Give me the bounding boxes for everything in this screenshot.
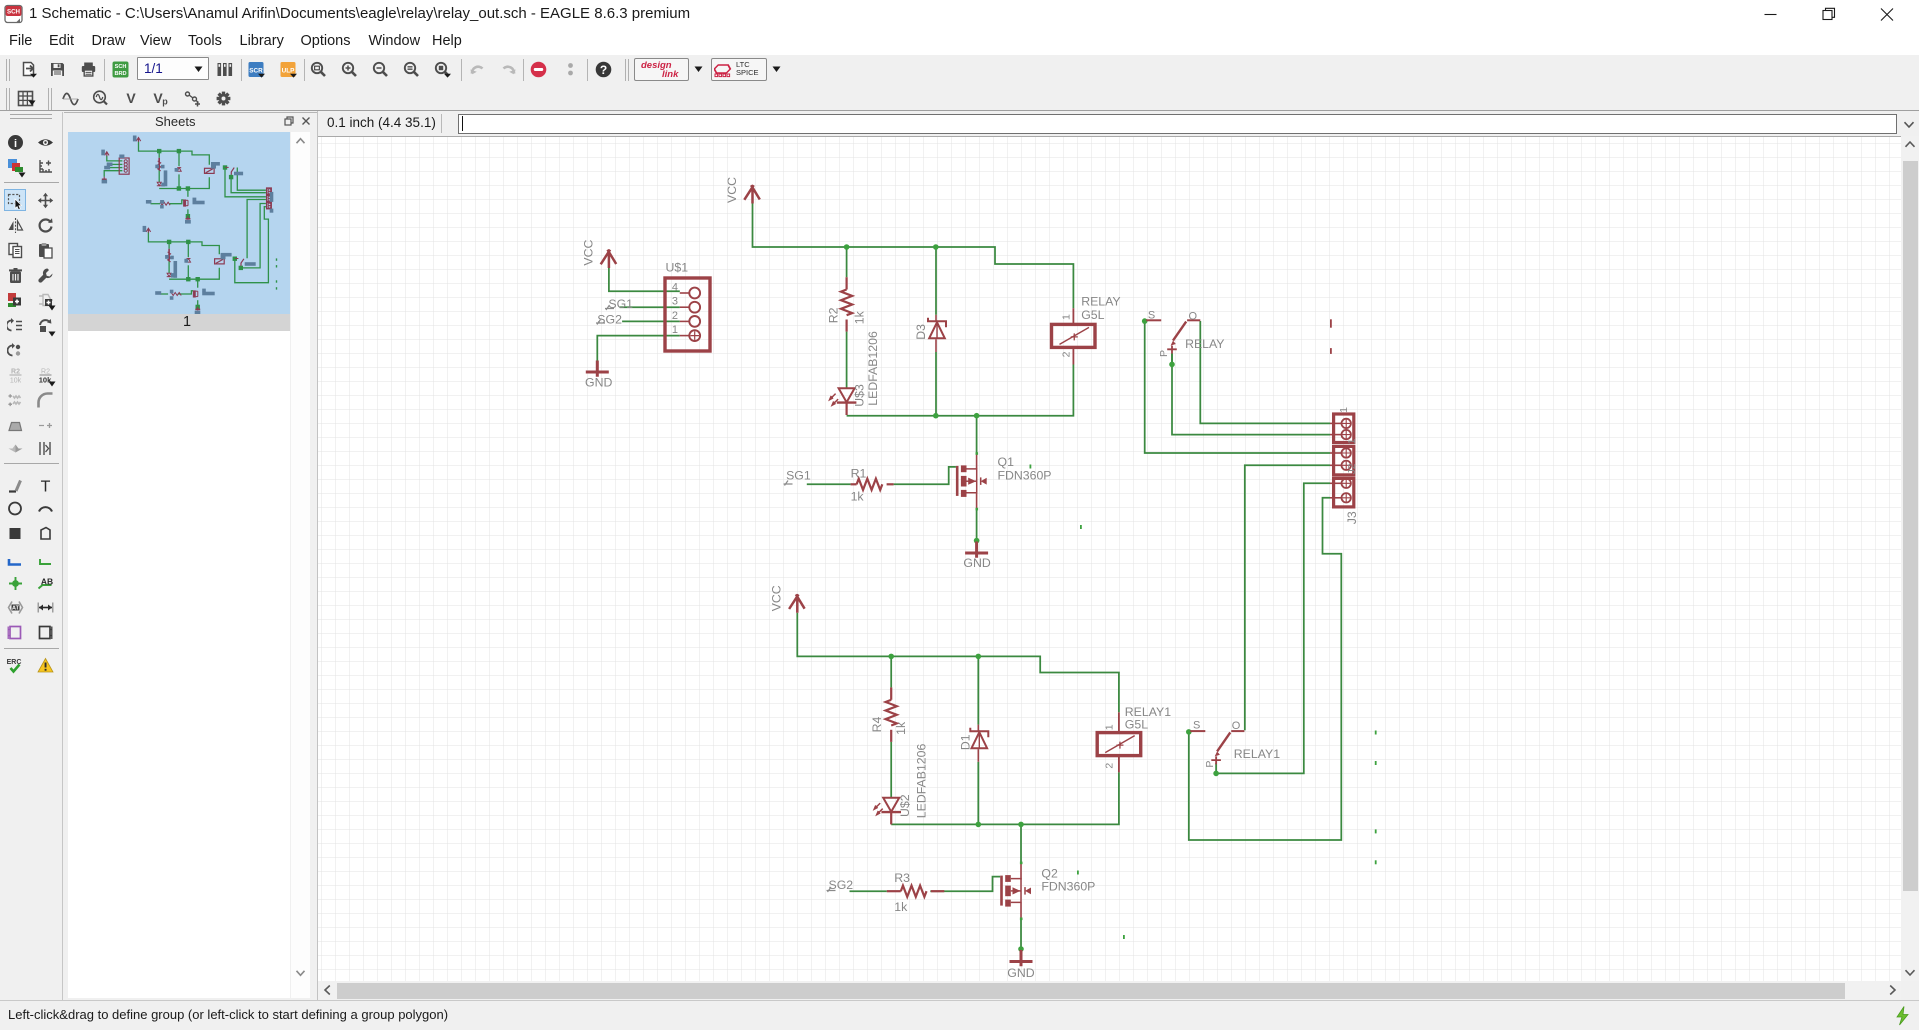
junction <box>888 654 894 660</box>
svg-text:V: V <box>126 90 136 106</box>
svg-text:2: 2 <box>1060 351 1072 357</box>
wire relay switch P to J1 pin2 <box>1172 354 1330 435</box>
wire bottom rail top circuit <box>847 365 1074 416</box>
wire Q2 source to GND <box>1020 919 1022 949</box>
transistor Q1 <box>976 453 978 469</box>
svg-text:RELAY1: RELAY1 <box>1234 747 1280 761</box>
wire bottom rail bottom circuit <box>891 772 1119 824</box>
junction <box>976 822 982 828</box>
resistor R2 <box>845 277 847 289</box>
svg-text:LEDFAB1206: LEDFAB1206 <box>915 744 929 819</box>
wire R2 top <box>846 247 848 277</box>
wire VCC rail bottom <box>797 613 1119 713</box>
wire VCC rail top <box>753 204 1074 309</box>
wire J3 pin1 to relay1 switch P <box>1216 483 1330 773</box>
wire relay switch S to J2 pin1 <box>1145 321 1330 453</box>
svg-text:BRD: BRD <box>114 71 126 77</box>
stray marks red <box>1330 319 1332 327</box>
supply VCC (U$1) <box>601 250 617 268</box>
svg-text:1k: 1k <box>851 490 865 504</box>
svg-text:S: S <box>1193 719 1200 731</box>
wire J3 pin2 to relay1 switch S <box>1189 498 1342 840</box>
svg-text:D3: D3 <box>914 324 928 340</box>
svg-text:RELAY: RELAY <box>1081 295 1120 309</box>
stray marks green <box>1030 465 1032 469</box>
svg-text:J3: J3 <box>1345 511 1359 524</box>
relay switch RELAY1 <box>1190 730 1205 732</box>
svg-text:3: 3 <box>672 296 678 308</box>
svg-text:Q1: Q1 <box>998 455 1015 469</box>
junction <box>1018 822 1024 828</box>
connector J1 <box>1334 414 1354 443</box>
svg-text:S: S <box>1148 310 1155 322</box>
wire R1 to Q1 gate <box>894 467 956 484</box>
svg-text:VCC: VCC <box>725 177 739 203</box>
svg-text:AT: AT <box>12 606 20 612</box>
svg-text:2: 2 <box>672 310 678 322</box>
svg-text:SG2: SG2 <box>597 312 622 326</box>
svg-text:1k: 1k <box>894 900 908 914</box>
junction <box>933 413 939 419</box>
connector J3 <box>1334 478 1354 507</box>
svg-text:Q2: Q2 <box>1041 867 1058 881</box>
svg-text:2: 2 <box>1104 763 1116 769</box>
svg-text:10k: 10k <box>10 378 22 385</box>
resistor R1 <box>851 483 857 485</box>
diode D1 <box>977 725 979 732</box>
svg-text:SCH: SCH <box>7 9 21 16</box>
wire relay switch P stub <box>1171 354 1173 365</box>
wire D1 top <box>977 656 979 724</box>
junction <box>1213 771 1219 777</box>
svg-text:1k: 1k <box>853 310 867 324</box>
svg-text:R1: R1 <box>851 467 867 481</box>
wire U$1 pin1 to GND <box>597 336 680 361</box>
supply VCC (bottom rail) <box>789 594 805 612</box>
svg-text:FDN360P: FDN360P <box>1041 880 1095 894</box>
resistor R4 <box>890 687 892 699</box>
svg-text:P: P <box>1204 761 1216 768</box>
supply VCC (top rail) <box>744 185 760 203</box>
resistor R3 <box>887 890 901 892</box>
svg-text:LEDFAB1206: LEDFAB1206 <box>866 331 880 406</box>
wire D3 top <box>935 247 937 315</box>
svg-text:1: 1 <box>672 324 678 336</box>
wire SG1 to R1 <box>807 483 851 485</box>
svg-text:VCC: VCC <box>582 240 596 266</box>
junction <box>933 244 939 250</box>
wire D1 bottom <box>977 762 979 825</box>
svg-text:?: ? <box>600 63 607 77</box>
svg-text:1: 1 <box>1060 314 1072 320</box>
wire relay1 switch P stub <box>1215 763 1217 773</box>
wire R4 top <box>890 656 892 687</box>
svg-text:4: 4 <box>672 282 678 294</box>
junction <box>1142 318 1148 324</box>
wire J2 pin2 to relay1 switch O <box>1245 465 1330 730</box>
svg-text:GND: GND <box>963 556 990 570</box>
svg-text:p: p <box>162 97 168 107</box>
wire SG2 to R3 <box>850 890 887 892</box>
svg-text:O: O <box>1232 720 1241 732</box>
svg-text:G5L: G5L <box>1125 717 1148 731</box>
wire R2 to LED U$3 <box>846 332 848 388</box>
ground GND (Q2) <box>1010 950 1033 966</box>
diode D3 <box>935 315 937 322</box>
connector J2 <box>1334 446 1354 475</box>
ground GND (U$1) <box>586 361 609 377</box>
svg-text:R4: R4 <box>870 717 884 733</box>
wire R4 to LED U$2 <box>890 742 892 797</box>
junction <box>1169 362 1175 368</box>
svg-text:U$1: U$1 <box>666 261 689 275</box>
svg-text:1k: 1k <box>894 721 908 735</box>
LED U$3 <box>846 387 848 389</box>
LED U$2 <box>883 798 899 812</box>
svg-text:U$2: U$2 <box>898 794 912 817</box>
svg-text:J2: J2 <box>1346 463 1358 474</box>
junction <box>974 413 980 419</box>
svg-text:P: P <box>1158 350 1170 357</box>
svg-text:1: 1 <box>1338 407 1350 413</box>
svg-text:U$3: U$3 <box>853 384 867 407</box>
svg-text:R2: R2 <box>827 307 841 323</box>
svg-text:RELAY: RELAY <box>1185 337 1224 351</box>
svg-text:FDN360P: FDN360P <box>998 468 1052 482</box>
wire SG1 to U$1 pin3 <box>620 306 680 308</box>
ground GND (Q1) <box>965 542 988 558</box>
relay coil RELAY <box>1072 308 1074 324</box>
svg-text:AB: AB <box>41 577 53 587</box>
wire SG2 to U$1 pin2 <box>622 320 680 322</box>
svg-text:1: 1 <box>1104 724 1116 730</box>
svg-text:D1: D1 <box>958 734 972 750</box>
svg-text:SCH: SCH <box>115 64 127 70</box>
relay switch RELAY <box>1146 319 1161 321</box>
svg-text:O: O <box>1189 310 1198 322</box>
transistor Q2 <box>1020 863 1022 880</box>
svg-text:R3: R3 <box>894 871 910 885</box>
wire Q1 source to GND <box>976 509 978 540</box>
svg-text:T: T <box>41 479 51 495</box>
wire D3 bottom <box>935 352 937 416</box>
wire Q1 drain <box>976 416 978 454</box>
junction <box>1186 729 1192 735</box>
svg-text:VCC: VCC <box>770 585 784 611</box>
connector U$1 <box>665 278 710 351</box>
svg-text:GND: GND <box>1007 966 1034 980</box>
junction <box>976 654 982 660</box>
svg-text:G5L: G5L <box>1081 308 1104 322</box>
wire relay switch O to J1 pin1 <box>1200 321 1330 423</box>
relay coil RELAY1 <box>1118 712 1120 732</box>
svg-text:SG1: SG1 <box>786 469 811 483</box>
svg-text:i: i <box>14 138 17 150</box>
wire Q2 drain <box>1020 824 1022 862</box>
junction <box>1018 946 1024 952</box>
svg-text:GND: GND <box>585 375 612 389</box>
junction <box>844 244 850 250</box>
wire R3 to Q2 gate <box>930 877 1000 892</box>
junction <box>974 538 980 544</box>
wire VCC to U$1 pin4 <box>609 268 680 292</box>
